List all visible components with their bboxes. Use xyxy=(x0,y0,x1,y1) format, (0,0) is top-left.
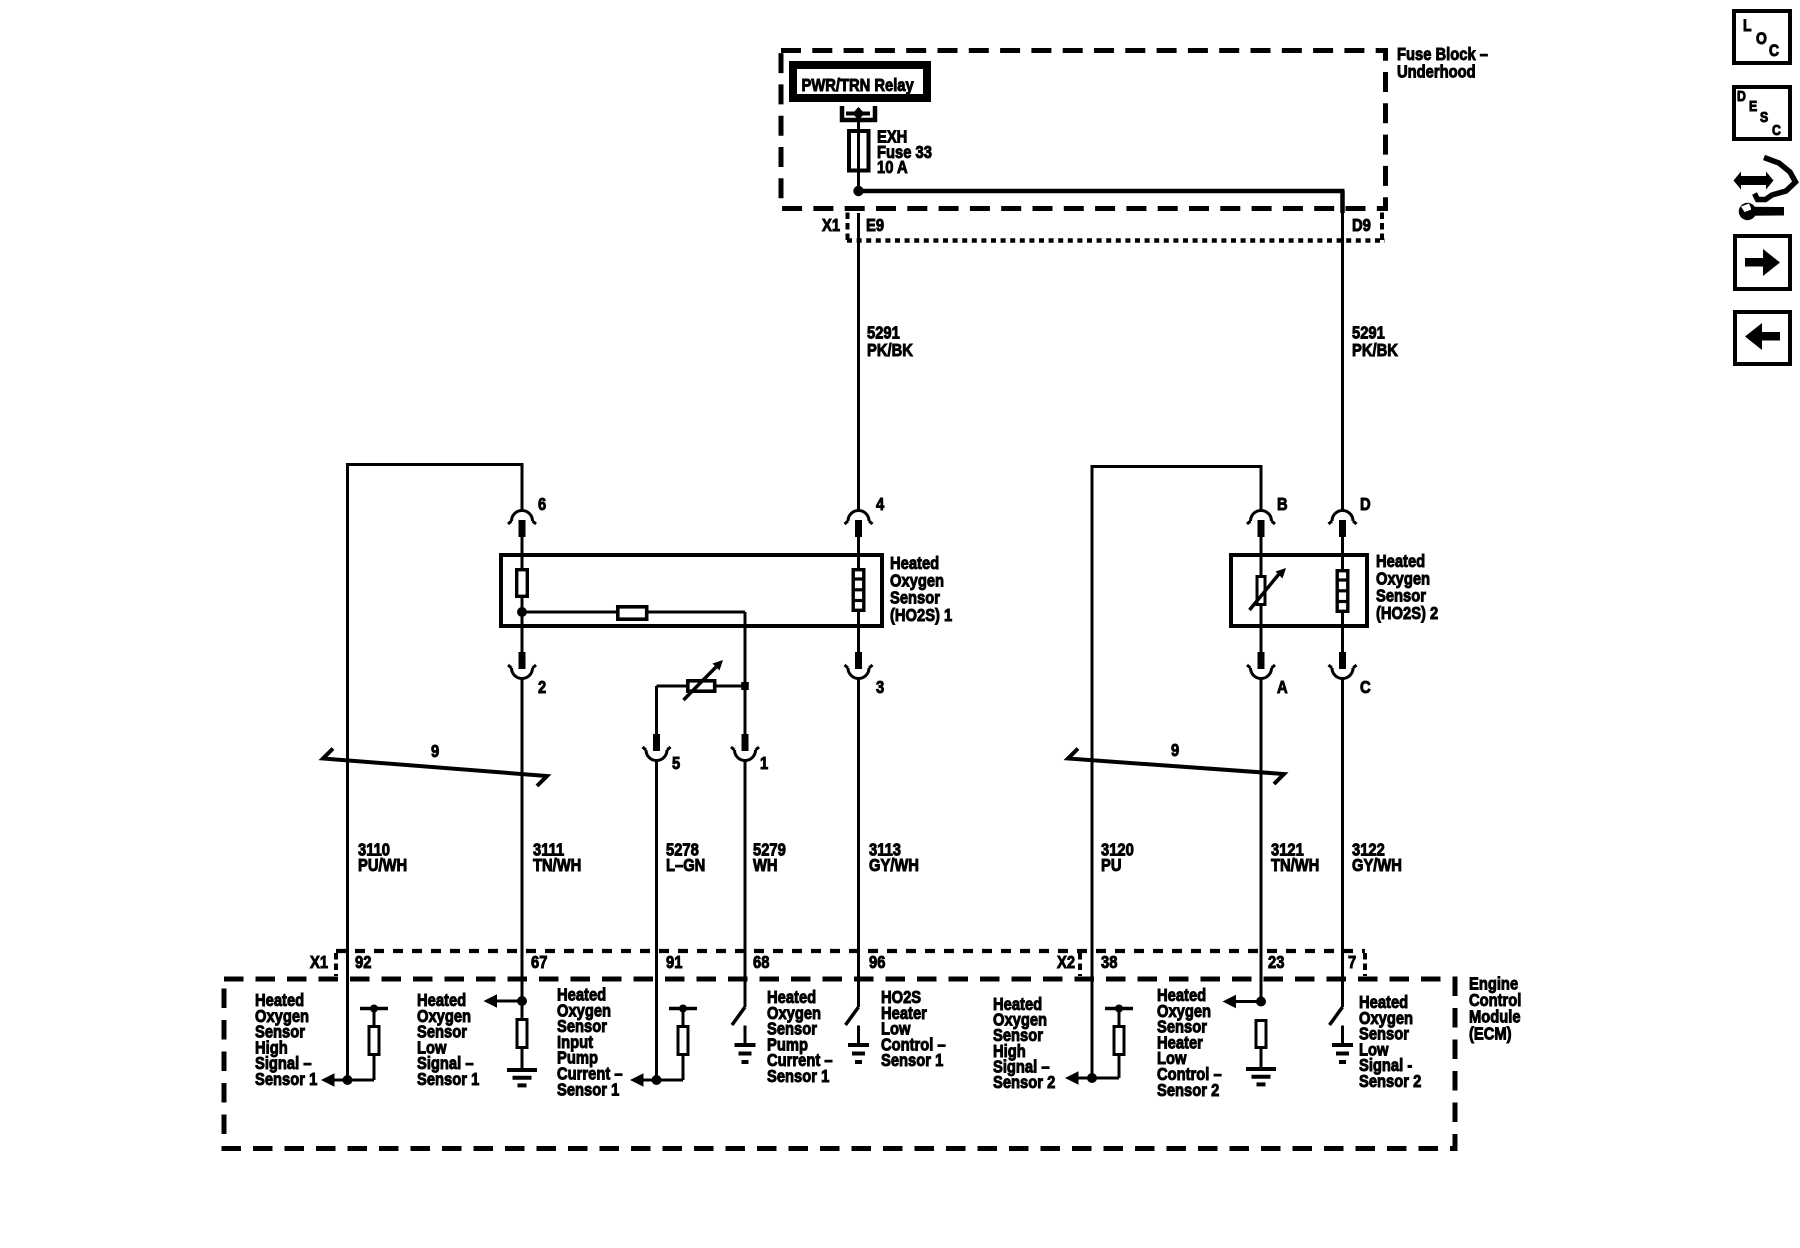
svg-text:C: C xyxy=(1772,122,1781,138)
svg-text:C: C xyxy=(1769,42,1779,61)
svg-text:1: 1 xyxy=(760,754,768,774)
svg-text:S: S xyxy=(1760,109,1768,125)
svg-text:C: C xyxy=(1360,678,1371,698)
svg-text:68: 68 xyxy=(753,953,769,973)
svg-text:(HO2S) 2: (HO2S) 2 xyxy=(1376,604,1438,624)
svg-text:67: 67 xyxy=(531,953,547,973)
svg-text:B: B xyxy=(1277,495,1288,515)
svg-text:D9: D9 xyxy=(1352,216,1371,236)
svg-text:Sensor 1: Sensor 1 xyxy=(255,1070,317,1090)
svg-text:D: D xyxy=(1360,495,1371,515)
svg-text:6: 6 xyxy=(538,495,546,515)
svg-text:A: A xyxy=(1277,678,1288,698)
svg-text:WH: WH xyxy=(753,856,778,876)
svg-text:TN/WH: TN/WH xyxy=(1271,856,1319,876)
svg-text:91: 91 xyxy=(666,953,682,973)
svg-text:Sensor 2: Sensor 2 xyxy=(1157,1080,1219,1100)
svg-text:4: 4 xyxy=(876,495,885,515)
svg-text:38: 38 xyxy=(1101,953,1117,973)
svg-text:O: O xyxy=(1756,30,1767,49)
svg-text:9: 9 xyxy=(1171,741,1179,761)
svg-text:PU: PU xyxy=(1101,856,1121,876)
svg-text:E: E xyxy=(1749,98,1757,114)
svg-text:L: L xyxy=(1743,17,1752,36)
svg-text:96: 96 xyxy=(869,953,885,973)
svg-text:PK/BK: PK/BK xyxy=(867,341,913,361)
svg-text:PK/BK: PK/BK xyxy=(1352,341,1398,361)
svg-text:Underhood: Underhood xyxy=(1397,62,1476,82)
svg-text:9: 9 xyxy=(431,742,439,762)
svg-text:X1: X1 xyxy=(822,216,840,236)
svg-text:Sensor 2: Sensor 2 xyxy=(1359,1072,1421,1092)
svg-text:2: 2 xyxy=(538,678,546,698)
svg-text:X1: X1 xyxy=(310,953,328,973)
svg-text:7: 7 xyxy=(1348,953,1356,973)
svg-text:92: 92 xyxy=(355,953,371,973)
svg-text:Sensor 1: Sensor 1 xyxy=(557,1080,619,1100)
svg-text:3: 3 xyxy=(876,678,884,698)
svg-text:10 A: 10 A xyxy=(877,158,908,178)
svg-text:Sensor 2: Sensor 2 xyxy=(993,1073,1055,1093)
svg-text:E9: E9 xyxy=(866,216,884,236)
svg-text:5: 5 xyxy=(672,754,680,774)
svg-text:23: 23 xyxy=(1268,953,1284,973)
svg-text:TN/WH: TN/WH xyxy=(533,856,581,876)
svg-text:(HO2S) 1: (HO2S) 1 xyxy=(890,606,952,626)
svg-text:PU/WH: PU/WH xyxy=(358,856,407,876)
svg-text:GY/WH: GY/WH xyxy=(869,856,919,876)
svg-text:PWR/TRN Relay: PWR/TRN Relay xyxy=(802,76,915,96)
svg-text:GY/WH: GY/WH xyxy=(1352,856,1402,876)
svg-text:Sensor 1: Sensor 1 xyxy=(881,1051,943,1071)
svg-text:L–GN: L–GN xyxy=(666,856,705,876)
svg-text:X2: X2 xyxy=(1057,953,1075,973)
svg-text:D: D xyxy=(1737,88,1746,104)
svg-text:(ECM): (ECM) xyxy=(1469,1024,1512,1044)
svg-text:Sensor 1: Sensor 1 xyxy=(767,1067,829,1087)
svg-text:Sensor 1: Sensor 1 xyxy=(417,1070,479,1090)
